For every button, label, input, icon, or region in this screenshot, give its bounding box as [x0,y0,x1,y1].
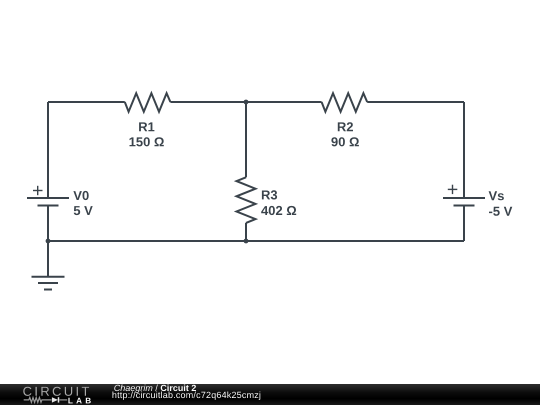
label R3 [262,190,277,199]
footer bar [0,384,540,405]
ground bar 3 [44,289,52,291]
label R2 [338,122,353,131]
value R2 90 ohm [331,137,359,146]
wire left vertical upper [47,102,49,198]
value R3 402 ohm [261,206,296,215]
wire top-middle horizontal [170,101,321,103]
resistor R2 [322,93,368,112]
value Vs -5 V [489,207,512,216]
value R1 150 ohm [130,137,164,146]
wire node to R3 [245,102,247,177]
node junction bottom left [46,239,51,244]
resistor R3 [237,177,256,223]
value V0 5 V [74,206,93,215]
label R1 [139,122,154,131]
wire right vertical lower [463,206,465,242]
logo resistor zigzag wire [24,398,52,403]
footer url [113,392,261,400]
Vs plus sign [448,188,458,190]
voltage source V0 short plate [38,205,59,207]
wire right vertical upper [463,102,465,198]
node junction top middle [244,100,249,105]
wire top-left horizontal [48,101,125,103]
wire top-right horizontal [367,101,464,103]
label V0 [73,191,88,200]
voltage source Vs long plate [443,197,485,199]
resistor R1 [125,93,171,112]
label Vs [489,191,504,200]
logo text CIRCUIT [23,387,89,396]
wire left vertical lower [47,206,49,242]
ground stem [47,241,49,277]
voltage source Vs short plate [454,205,475,207]
ground bar 2 [38,282,58,284]
footer credit Chaegrim / Circuit 2 [114,385,196,393]
wire bottom horizontal [48,240,464,242]
ground bar 1 [32,276,65,278]
logo diode [52,397,58,402]
V0 plus sign [33,190,43,192]
node junction bottom middle [244,239,249,244]
wire R3 to bottom [245,223,247,241]
voltage source V0 long plate [27,197,69,199]
logo text LAB [68,398,90,404]
